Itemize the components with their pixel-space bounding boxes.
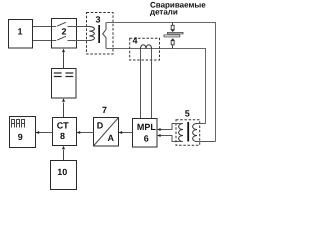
- dashed box 5: [176, 108, 200, 145]
- wire coil right lead: [151, 49, 153, 119]
- wire T2 primary top lead: [158, 124, 183, 130]
- arrow into CT bottom: [62, 146, 65, 150]
- transformer T1 secondary (single turn): [103, 23, 106, 49]
- svg-text:6: 6: [144, 134, 149, 144]
- wire rectifier to block 2: [63, 52, 65, 68]
- wire lower electrode drop: [172, 45, 174, 49]
- svg-text:D: D: [97, 120, 104, 130]
- block 7 D/A: [94, 105, 119, 146]
- arrow into block 2: [62, 49, 65, 53]
- transformer T2 core: [187, 122, 189, 142]
- display digit 1: [12, 120, 15, 128]
- wire lower 2-T1: [68, 40, 90, 42]
- upper workpiece: [168, 32, 184, 34]
- block MPL 6: [133, 119, 158, 148]
- svg-text:3: 3: [95, 14, 100, 24]
- wire upper electrode drop: [172, 23, 174, 26]
- svg-text:детали: детали: [150, 8, 178, 17]
- wire secondary bottom: [106, 49, 206, 124]
- wire T2 secondary top lead: [197, 123, 206, 125]
- wire CT to 9: [36, 132, 53, 134]
- block 2 contactor: [52, 19, 77, 49]
- arrow into block 9: [36, 131, 40, 134]
- transformer T1 core: [98, 25, 100, 43]
- wire D/A to CT: [77, 132, 94, 134]
- svg-text:CT: CT: [57, 121, 69, 131]
- wire 10 to CT: [63, 150, 65, 161]
- svg-text:8: 8: [60, 131, 65, 141]
- dashed box 4: [130, 36, 160, 61]
- arrow into CT right: [77, 131, 81, 134]
- block CT 8: [53, 118, 77, 146]
- lower workpiece: [164, 35, 180, 37]
- wire secondary top: [106, 23, 216, 142]
- wire lower 1-2: [33, 40, 56, 42]
- wire T2 secondary bottom lead: [197, 141, 216, 143]
- transformer T2 secondary winding: [193, 124, 197, 142]
- block 9 indicator: [10, 117, 36, 148]
- transformer T1 primary winding: [89, 27, 94, 41]
- svg-text:7: 7: [102, 105, 107, 115]
- rectifier block ==: [52, 69, 77, 99]
- svg-text:4: 4: [132, 36, 137, 46]
- dashed box 3: [87, 13, 114, 55]
- switch blade upper: [57, 22, 66, 26]
- display digit 3: [22, 120, 25, 128]
- arrow into rectifier: [62, 98, 65, 102]
- lower electrode: [171, 38, 175, 40]
- wire MPL to D/A: [119, 132, 133, 134]
- transformer T2 primary winding: [179, 124, 183, 142]
- arrow into MPL bottom: [157, 134, 161, 137]
- wire CT to rectifier: [63, 103, 65, 118]
- svg-text:2: 2: [61, 26, 66, 36]
- wire upper 1-2: [33, 26, 56, 28]
- svg-text:A: A: [108, 133, 115, 143]
- svg-text:5: 5: [185, 108, 190, 118]
- block 10: [51, 161, 77, 190]
- current pickup coil: [141, 45, 152, 49]
- wire coil left lead: [140, 49, 142, 119]
- block 1: [9, 20, 33, 49]
- svg-text:10: 10: [57, 167, 67, 177]
- upper electrode: [171, 25, 174, 29]
- svg-text:MPL: MPL: [137, 122, 157, 132]
- display digit 2: [17, 120, 20, 128]
- switch blade lower: [57, 36, 66, 40]
- arrow into D/A: [119, 131, 123, 134]
- svg-text:9: 9: [18, 132, 23, 142]
- arrow into MPL top: [157, 128, 161, 131]
- svg-text:1: 1: [17, 27, 22, 37]
- wire upper 2-T1: [68, 26, 90, 28]
- wire T2 primary bottom lead: [158, 136, 183, 142]
